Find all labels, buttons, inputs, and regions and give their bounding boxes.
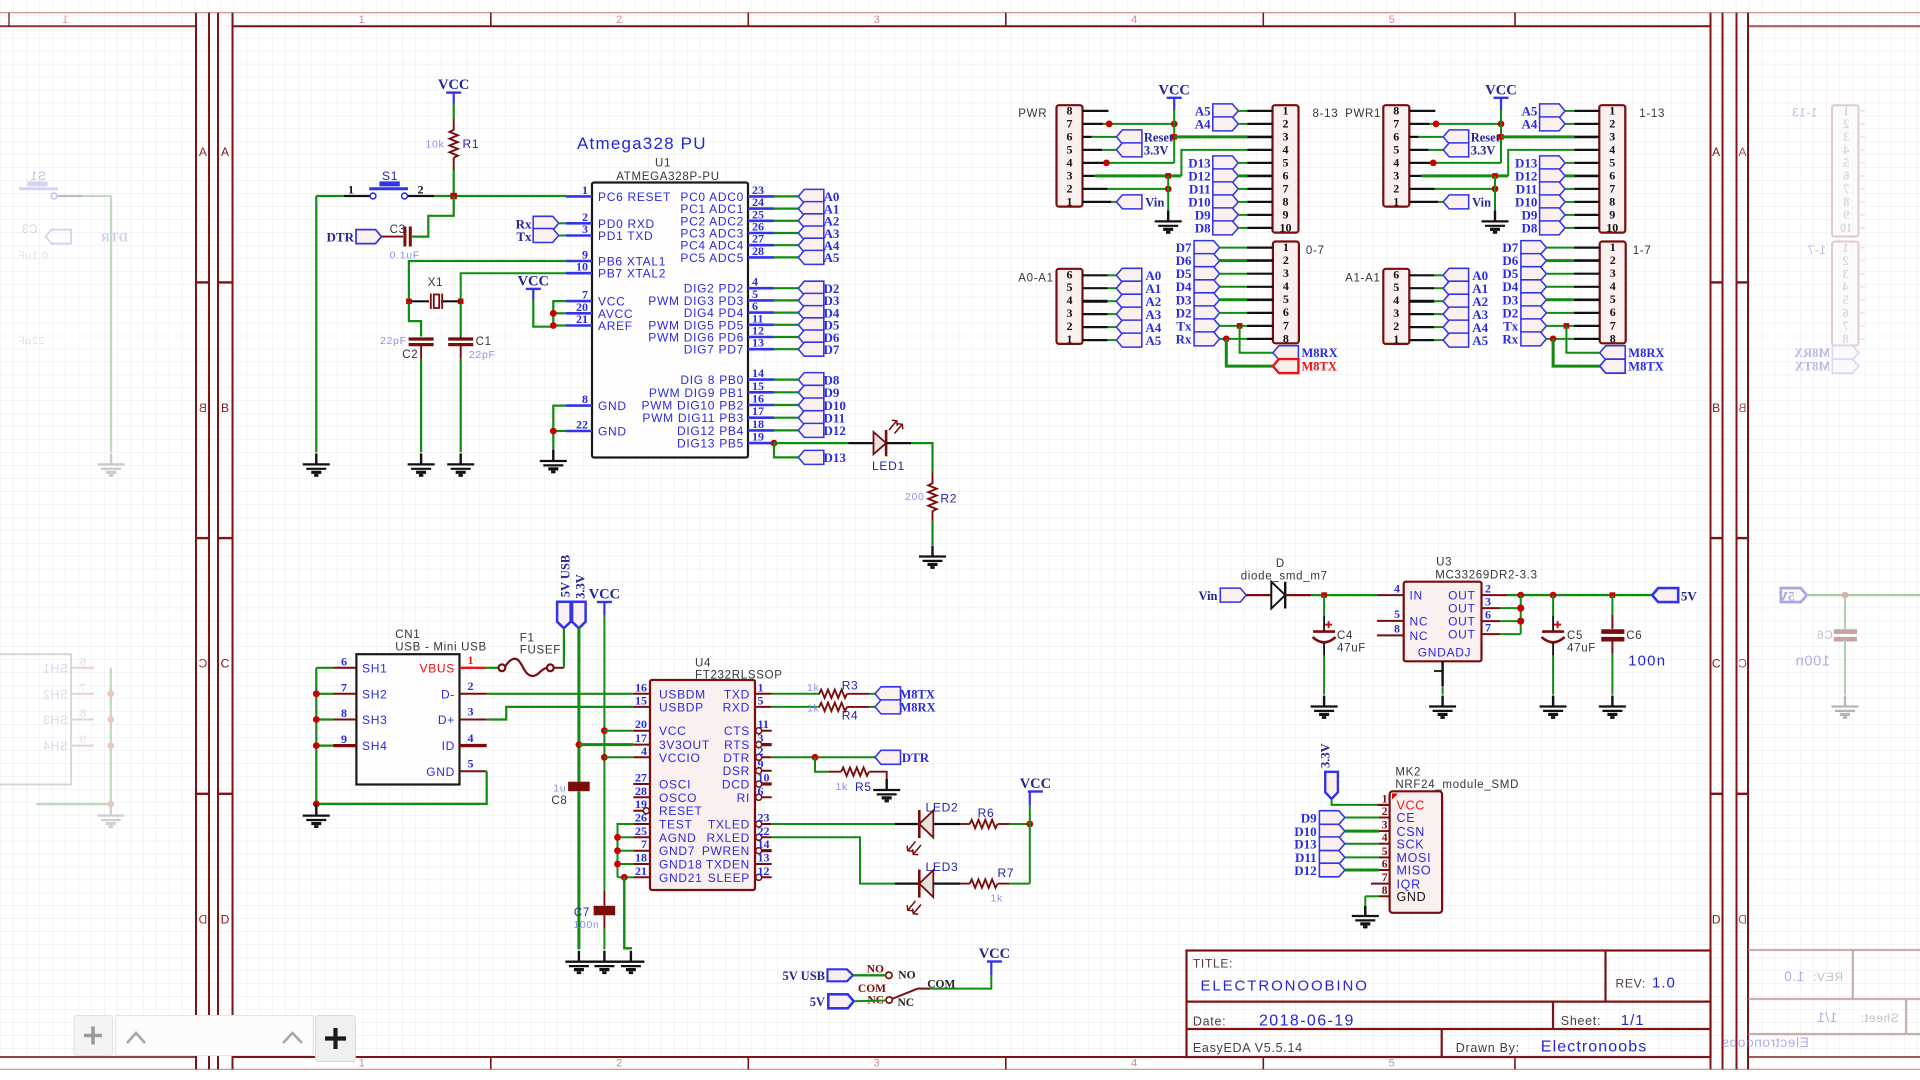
svg-text:M8TX: M8TX (900, 687, 935, 701)
svg-text:13: 13 (752, 336, 764, 350)
wire A0-A1.2 (black) (1083, 326, 1108, 328)
svg-text:5: 5 (1610, 292, 1616, 306)
CN1 pin 6 SH1 (333, 667, 356, 669)
junction Rx (0-7) (1223, 336, 1230, 343)
LED2 emission arrows (907, 842, 921, 855)
svg-text:5: 5 (1283, 292, 1289, 306)
svg-text:U1: U1 (655, 158, 671, 170)
wire GND pin22 stub (553, 430, 566, 432)
svg-text:4: 4 (1283, 279, 1289, 293)
wire TXLED to LED2 (772, 823, 895, 825)
svg-text:100n: 100n (1795, 654, 1830, 670)
mirrored net label DTR (faded) (46, 230, 72, 244)
svg-text:4: 4 (1842, 143, 1849, 157)
svg-text:1: 1 (582, 183, 588, 197)
svg-text:16: 16 (635, 680, 647, 694)
svg-text:C5: C5 (1567, 630, 1583, 642)
MK2 pin 3 CSN (1379, 830, 1390, 832)
svg-text:PC6 RESET: PC6 RESET (598, 190, 671, 204)
svg-text:DTR: DTR (902, 750, 930, 765)
svg-text:21: 21 (635, 864, 647, 878)
svg-text:1: 1 (1842, 241, 1848, 255)
net label Vin (1443, 195, 1469, 209)
svg-text:6: 6 (1393, 267, 1399, 281)
net label D9 (NRF24) (1319, 811, 1345, 825)
svg-text:M8TX: M8TX (1628, 360, 1663, 374)
svg-text:PC5 ADC5: PC5 ADC5 (680, 251, 744, 265)
svg-text:1k: 1k (991, 893, 1004, 905)
net label Reset (1116, 130, 1142, 144)
svg-text:10: 10 (1606, 221, 1618, 235)
wire A5 to 8-13 (1238, 110, 1247, 112)
net label D9 (header) (1213, 208, 1239, 222)
MK2 pin 5 MOSI (1379, 856, 1390, 858)
svg-text:R4: R4 (842, 709, 859, 723)
svg-text:PWR1: PWR1 (1345, 108, 1381, 120)
svg-text:10: 10 (1840, 221, 1853, 235)
wire D10 to 1-13 (1565, 201, 1574, 203)
U1 pin 5 PWM DIG3 PD3 (right) (748, 299, 774, 302)
net label D11 (header) (1540, 182, 1566, 196)
LED1 emission arrows (889, 420, 903, 433)
wire MK2 GND to ground (1365, 895, 1379, 897)
port flag 3.3V (vertical) (572, 602, 586, 629)
svg-text:REV:: REV: (1616, 977, 1646, 991)
net label A0 (A0-A1) (1116, 268, 1142, 282)
svg-text:1: 1 (359, 1058, 366, 1070)
svg-text:SH2: SH2 (362, 687, 387, 701)
svg-text:VCC: VCC (438, 77, 469, 93)
U4 pin 16 USBDM (left) (633, 693, 650, 695)
title block divider: Drawn By column (1441, 1029, 1443, 1057)
ground (R5) (873, 779, 900, 801)
CN1 pin 2 D- (460, 693, 487, 695)
mirrored junction C6 (faded) (1842, 592, 1849, 599)
title block divider: Sheet column (1552, 1002, 1554, 1029)
wire U1 to net D7 (774, 348, 798, 350)
switch lever COM-NC (918, 988, 931, 990)
junction DTR/R5 (812, 754, 819, 761)
U4 pin 21 GND21 (left) (633, 876, 650, 878)
svg-text:5V USB: 5V USB (783, 969, 826, 983)
title block divider: title/date row (1187, 1000, 1711, 1002)
svg-text:NRF24_module_SMD: NRF24_module_SMD (1395, 779, 1519, 791)
ground (C4) (1311, 696, 1338, 718)
U1 pin 16 PWM DIG10 PB2 (right) (748, 404, 774, 407)
svg-text:MISO: MISO (1397, 864, 1432, 878)
wire D13 to MK2 (1345, 843, 1379, 845)
wire Reset net into 1-13.3 (thick) (1501, 135, 1574, 138)
wire D9 to MK2 (1345, 817, 1379, 819)
wire 3.3V net vertical (thick green) (577, 628, 580, 781)
svg-text:A5: A5 (824, 250, 840, 265)
svg-text:RXLED: RXLED (706, 831, 750, 845)
svg-text:A4: A4 (1195, 116, 1211, 131)
UI scrollbar left chevron (127, 1033, 145, 1043)
wire Reset net into 8-13.3 (thick) (1174, 135, 1247, 138)
net label A3 (A1-A1) (1443, 307, 1469, 321)
title block outline (1187, 951, 1711, 1058)
svg-text:A: A (1738, 145, 1747, 159)
svg-text:USBDP: USBDP (659, 700, 704, 714)
mirrored junction (faded) (107, 742, 114, 749)
ground (U4) (617, 951, 644, 973)
svg-text:B: B (1738, 401, 1747, 415)
U3 pin 8 NC (1377, 634, 1404, 636)
U4 pin 17 3V3OUT (left) (633, 744, 650, 746)
svg-text:Rx: Rx (1502, 331, 1518, 346)
svg-text:U4: U4 (695, 658, 711, 670)
svg-text:A: A (221, 145, 230, 159)
svg-text:VCC: VCC (1020, 776, 1051, 792)
svg-text:GND: GND (1397, 890, 1427, 904)
wire D4 to 1-7 (1546, 286, 1573, 288)
CN1 pin 1 VBUS (460, 667, 486, 669)
svg-text:2: 2 (616, 1058, 623, 1070)
svg-text:TXDEN: TXDEN (706, 858, 750, 872)
net label D2 (1-7) (1521, 306, 1547, 320)
wire 5V USB to NO (853, 974, 886, 976)
MK2 pin 6 MISO (1379, 869, 1390, 871)
wire VBUS to F1 (486, 667, 499, 669)
net label A4 (header) (1213, 117, 1239, 131)
svg-text:7: 7 (1283, 318, 1289, 332)
wire VCC stem (LEDs) (1029, 792, 1031, 806)
U1 pin 27 PC4 ADC4 (right) (748, 244, 774, 247)
svg-text:IN: IN (1410, 589, 1423, 603)
svg-text:R5: R5 (855, 780, 872, 794)
net label D2 (0-7) (1194, 306, 1220, 320)
net label D7 (798, 342, 824, 356)
svg-text:4: 4 (1609, 143, 1615, 157)
wire D8 to 1-13 (1565, 227, 1574, 229)
U4 pin 25 AGND (left) (633, 836, 650, 838)
svg-text:D: D (1276, 558, 1285, 570)
svg-text:8: 8 (1609, 195, 1615, 209)
net label D10 (header) (1213, 195, 1239, 209)
net label M8RX (0-7) (1273, 346, 1299, 360)
svg-text:A1-A1: A1-A1 (1345, 273, 1380, 285)
svg-text:R2: R2 (940, 492, 957, 506)
svg-text:4: 4 (1067, 156, 1073, 170)
net label D9 (header) (1540, 208, 1566, 222)
net label 3.3V (1116, 143, 1142, 157)
resistor R1 10k (453, 119, 455, 130)
U1 pin 24 PC1 ADC1 (right) (748, 207, 774, 210)
svg-text:R1: R1 (463, 137, 480, 151)
svg-text:1-7: 1-7 (1633, 245, 1652, 257)
U4 pin 12 SLEEP (right) (755, 876, 772, 878)
wire SH stub (316, 744, 333, 746)
svg-text:4: 4 (1393, 293, 1399, 307)
wire U1 to net A1 (774, 208, 798, 210)
junction Tx (1-7) (1564, 323, 1570, 329)
wire RESET net to U1 pin1 (green) (434, 195, 566, 197)
svg-text:3: 3 (1283, 130, 1289, 144)
ground (C7) (591, 951, 618, 973)
net label A3 (798, 226, 824, 240)
svg-text:1: 1 (359, 14, 366, 26)
net label A1 (A0-A1) (1116, 281, 1142, 295)
svg-text:COM: COM (858, 983, 886, 995)
mirrored ground (faded) (98, 453, 125, 475)
svg-text:7: 7 (1609, 182, 1615, 196)
net label A2 (A1-A1) (1443, 294, 1469, 308)
wire LED1 to R2 (911, 443, 932, 471)
junction VCC/PWR.7 (1171, 121, 1178, 128)
wire U1 to net A4 (774, 244, 798, 246)
svg-text:SH1: SH1 (43, 661, 68, 675)
net label A2 (A0-A1) (1116, 294, 1142, 308)
U1 pin 17 PWM DIG11 PB3 (right) (748, 416, 774, 419)
mirrored ground C6 (faded) (1832, 696, 1859, 718)
wire D11 to MK2 (1345, 856, 1379, 858)
svg-text:NC: NC (1410, 629, 1429, 643)
junction OUT/C5 (1550, 592, 1557, 599)
mirrored connector 1-13 (faded) (1832, 105, 1859, 236)
U1 pin 19 DIG13 PB5 (right) (748, 442, 774, 445)
svg-text:200: 200 (905, 491, 925, 503)
junction shield (313, 716, 320, 723)
svg-text:2: 2 (1842, 254, 1848, 268)
wire 3.3V to MK2 VCC (1332, 799, 1377, 805)
net label 5V (regulator) (1652, 588, 1678, 602)
net label A3 (A0-A1) (1116, 307, 1142, 321)
wire D13 to 1-13 (1565, 162, 1574, 164)
svg-text:D8: D8 (1195, 220, 1211, 235)
net label D5 (798, 318, 824, 332)
U4 pin 14 PWREN (right) (755, 849, 772, 852)
ground (U1 GND) (540, 450, 567, 472)
switch contact NC (886, 997, 892, 1003)
svg-text:6: 6 (1485, 608, 1491, 622)
U4 pin 2 DTR (right) (755, 756, 772, 758)
wire into 1-13.4 (1574, 149, 1599, 151)
junction VCC/Reset row (1171, 134, 1177, 140)
svg-text:7: 7 (1842, 319, 1848, 333)
svg-text:CE: CE (1397, 811, 1416, 825)
power flag VCC (AVCC) (518, 273, 549, 289)
wire LED1 cathode (black) (886, 442, 911, 444)
net label DTR (left) (356, 230, 382, 244)
svg-text:LED3: LED3 (926, 860, 959, 874)
svg-text:OUT: OUT (1448, 601, 1475, 615)
wire D3 to 1-7 (1546, 298, 1573, 301)
wire GND pins net (green) (553, 406, 566, 450)
wire VCC stem (blue) (453, 93, 455, 104)
svg-text:6: 6 (1283, 169, 1289, 183)
svg-text:RESET: RESET (659, 804, 703, 818)
wire A0-A1.4 (black) (1083, 300, 1108, 303)
svg-text:5: 5 (1389, 1058, 1396, 1070)
wire 3V3OUT (thick green) (579, 743, 633, 746)
wire CN1 GND to shield (green) (316, 771, 486, 804)
column ticks bottom margin (490, 1057, 492, 1069)
svg-text:A5: A5 (1145, 333, 1161, 348)
wire D3 to 0-7 (1220, 298, 1247, 301)
svg-text:GND21: GND21 (659, 871, 703, 885)
junction shield (313, 742, 320, 749)
svg-text:Vin: Vin (1199, 589, 1218, 603)
svg-text:5: 5 (1393, 280, 1399, 294)
svg-text:1: 1 (348, 183, 354, 197)
U1 pin 23 PC0 ADC0 (right) (748, 195, 774, 198)
junction AREF (550, 322, 557, 329)
svg-text:4: 4 (1842, 280, 1849, 294)
junction shield (313, 690, 320, 697)
junction PWR.3 (1165, 173, 1171, 179)
wire C5 to ground (1552, 656, 1554, 695)
wire R6 to VCC (1009, 823, 1030, 825)
right mirrored sheet left border (outer) (1736, 13, 1738, 1070)
svg-text:B: B (198, 401, 207, 415)
net label A4 (A1-A1) (1443, 320, 1469, 334)
svg-text:6: 6 (1067, 130, 1073, 144)
svg-text:8: 8 (80, 706, 86, 720)
CN1 pin 3 D+ (460, 719, 487, 721)
svg-text:PD1 TXD: PD1 TXD (598, 229, 653, 243)
main sheet left border (inner) (232, 13, 234, 1070)
CN1 pin 8 SH3 (333, 719, 356, 721)
mirrored faded content - right sheet (1721, 104, 1920, 1050)
svg-text:22pF: 22pF (380, 335, 407, 347)
net label Tx (0-7) (1194, 319, 1220, 333)
svg-text:9: 9 (341, 732, 347, 746)
wire 5V to NC (854, 1000, 886, 1003)
junction PWR.2 (1165, 186, 1172, 193)
wire PWR.2 to ground (1167, 176, 1169, 210)
mirrored shield wire (faded) (110, 668, 112, 804)
wire VCC to R1 (453, 104, 455, 119)
svg-text:C8: C8 (551, 795, 567, 807)
svg-text:Rx: Rx (1176, 331, 1192, 346)
U3 pin 4 lead (1377, 594, 1404, 596)
svg-text:M8TX: M8TX (1795, 360, 1830, 374)
svg-text:1-7: 1-7 (1807, 245, 1826, 257)
net label D4 (798, 306, 824, 320)
svg-text:PWR: PWR (1018, 108, 1047, 120)
MK2 pin1 marker (1392, 794, 1398, 800)
svg-text:OSCO: OSCO (659, 791, 697, 805)
wire AVCC stub (553, 312, 566, 314)
capacitor C2 22pF (409, 339, 434, 345)
wire C1 lead (460, 345, 462, 359)
IC U3 MC33269DR2-3.3 body (1404, 582, 1482, 662)
svg-text:4: 4 (1610, 279, 1616, 293)
wire OUT pins riser (green) (1520, 595, 1522, 634)
wire R1 to RESET net (453, 170, 455, 196)
wire PB7 net (green) (461, 273, 566, 299)
svg-text:2: 2 (1393, 319, 1399, 333)
wire VCC stem (1173, 98, 1175, 110)
UI scrollbar right chevron (283, 1033, 302, 1043)
wire D9 to 1-13 (1565, 214, 1574, 216)
net label D3 (0-7) (1194, 293, 1220, 307)
wire U1 to net D6 (774, 336, 798, 338)
svg-text:3: 3 (1382, 820, 1388, 832)
svg-text:8: 8 (1283, 195, 1289, 209)
svg-text:11: 11 (758, 717, 769, 731)
svg-text:VCCIO: VCCIO (659, 751, 701, 765)
svg-text:2: 2 (1283, 117, 1289, 131)
svg-text:NC: NC (1410, 614, 1429, 628)
svg-text:5V: 5V (810, 995, 825, 1009)
svg-text:1/1: 1/1 (1621, 1012, 1645, 1029)
wire S1 to ground (green) (315, 196, 317, 452)
svg-text:Vin: Vin (1145, 195, 1164, 209)
wire VCC stem (AVCC) (532, 289, 534, 300)
PWR row5 wire to 3.3V (1083, 149, 1103, 151)
wire Rx to M8TX (1-7) thick (1553, 339, 1600, 366)
svg-text:100n: 100n (573, 919, 599, 931)
wire DTR to C3 (382, 236, 404, 238)
net label D3 (798, 293, 824, 307)
svg-text:ATMEGA328P-PU: ATMEGA328P-PU (616, 171, 719, 183)
capacitor C5 47uF (1552, 595, 1554, 616)
wire D5 to 0-7 (1220, 273, 1247, 275)
svg-text:7: 7 (1610, 318, 1616, 332)
svg-text:8: 8 (1610, 331, 1616, 345)
svg-text:M8RX: M8RX (1794, 346, 1830, 360)
svg-text:25: 25 (635, 824, 647, 838)
net label D6 (0-7) (1194, 254, 1220, 268)
U4 pin 5 RXD (right) (755, 706, 772, 708)
wire LED1 anode (black) (849, 442, 874, 444)
svg-text:5: 5 (1283, 156, 1289, 170)
svg-text:VCC: VCC (659, 724, 686, 738)
MK2 pin 2 CE (1379, 817, 1390, 819)
wire U1 to net A0 (774, 195, 798, 197)
U1 pin 1 PC6 RESET (left) (566, 195, 592, 198)
svg-text:D: D (198, 912, 207, 926)
net label D10 (NRF24) (1319, 824, 1345, 838)
wire D10 to MK2 (1345, 830, 1379, 833)
svg-text:2: 2 (1609, 117, 1615, 131)
mirrored junction (faded) (107, 690, 114, 697)
wire U1 to net D3 (774, 299, 798, 301)
svg-text:GND7: GND7 (659, 844, 695, 858)
MK2 pin 4 SCK (1379, 843, 1390, 845)
wire D2 to 0-7 (1220, 312, 1247, 314)
wire D11 to 1-13 (1565, 188, 1574, 190)
svg-text:D: D (221, 912, 230, 926)
wire X1 to C1 (460, 304, 462, 337)
svg-text:8: 8 (1283, 331, 1289, 345)
wire LED3 to R7 (black) (933, 882, 960, 884)
junction shield/gnd (313, 801, 320, 808)
svg-text:MK2: MK2 (1395, 767, 1421, 779)
connector 0-7 (1273, 242, 1299, 344)
net label A2 (798, 214, 824, 228)
U1 pin 11 PWM DIG5 PD5 (right) (748, 323, 774, 326)
sheet frame: inner bottom line (233, 1056, 1711, 1058)
svg-text:1: 1 (1393, 195, 1399, 209)
U4 pin 18 GND18 (left) (633, 863, 650, 865)
svg-text:3: 3 (1393, 306, 1399, 320)
svg-text:5: 5 (1067, 280, 1073, 294)
svg-text:18: 18 (635, 851, 647, 865)
U1 pin 7 VCC (left) (566, 300, 592, 303)
svg-text:2: 2 (1382, 806, 1388, 818)
wire Rx to 1-7 (1546, 338, 1573, 340)
svg-text:2: 2 (1393, 182, 1399, 196)
net label 3.3V (1443, 143, 1469, 157)
power flag VCC (header) (1158, 82, 1189, 98)
svg-text:2: 2 (1283, 253, 1289, 267)
svg-text:4: 4 (641, 744, 647, 758)
junction OUT/NC riser (1517, 592, 1524, 599)
svg-text:D13: D13 (824, 450, 847, 465)
